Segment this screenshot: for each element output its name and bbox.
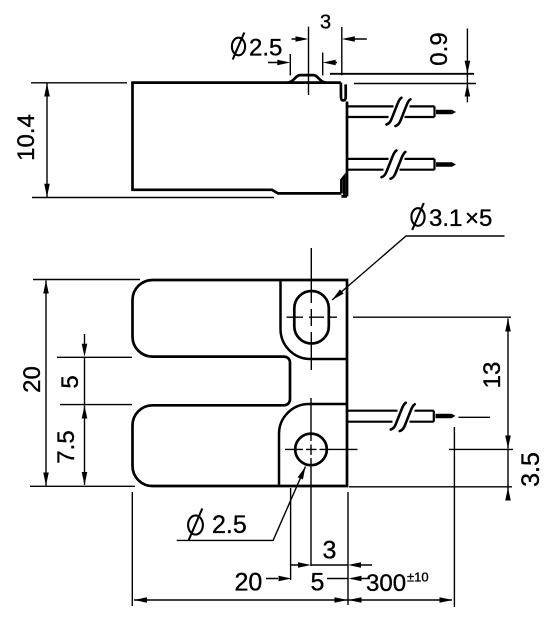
- dim 13 extension (oval centerline ext): [353, 316, 511, 318]
- lead wire 1 outline: [347, 106, 435, 117]
- sensor body side-view outline: [133, 75, 348, 196]
- leader phi3.1x5: [332, 236, 505, 300]
- svg-text:20: 20: [235, 569, 263, 597]
- dim 3 (top) arrows: [292, 38, 367, 40]
- body right edge: [346, 102, 349, 197]
- wire 2 break slashes: [382, 151, 406, 179]
- svg-text:±10: ±10: [407, 570, 429, 585]
- wire (plan) conductor tip: [436, 414, 456, 419]
- dim 13 arrowheads: [505, 319, 511, 332]
- dim 0.9 arrowheads: [465, 61, 471, 74]
- dim 3.5 lower arrowhead: [505, 488, 511, 501]
- bottom-right tab: [341, 176, 347, 196]
- oval hole centerlines: [287, 248, 338, 370]
- dim 20 (left) line: [45, 281, 47, 486]
- lead wire 2 outline: [347, 159, 435, 170]
- circle hole phi2.5: [295, 434, 327, 466]
- label phi3.1x5 : phi symbol: [411, 203, 424, 230]
- wire 1 break slashes: [387, 98, 411, 126]
- dim 5 upper arrow: [84, 334, 86, 344]
- dim phi2.5 ticks: [290, 53, 322, 76]
- svg-text:3: 3: [320, 12, 331, 34]
- top-right tab: [341, 83, 346, 101]
- row3 arrowheads: [134, 597, 147, 603]
- svg-text:2.5: 2.5: [249, 35, 282, 62]
- extension line x=132.3 (row3 left): [131, 492, 133, 606]
- wire (plan) break slashes: [391, 403, 415, 431]
- dim phi2.5 arrows: [268, 62, 337, 64]
- dim 3.5 extension lines: [349, 449, 513, 486]
- dim 7.5 line: [84, 406, 86, 486]
- lens dome: [287, 75, 326, 83]
- extension line x=348 (right face): [347, 492, 349, 605]
- dim 13 line: [507, 319, 509, 449]
- dim 0.9 line: [466, 29, 468, 103]
- extension line x=290.6 (slot end): [290, 488, 292, 580]
- lens centerline: [308, 27, 310, 95]
- leader phi2.5 (bottom): [177, 467, 306, 541]
- svg-text:5: 5: [57, 375, 84, 388]
- dim 0.9 extension lines: [330, 73, 474, 75]
- wire 2 conductor tip: [436, 162, 456, 167]
- top ear inner line: [281, 281, 348, 359]
- dim 10.4 arrowheads: [44, 83, 50, 96]
- fork body outline: [133, 280, 348, 486]
- dim 20 (left) extension lines: [30, 280, 140, 487]
- dim 7.5 arrowheads: [82, 406, 88, 419]
- dim 10.4 extension lines: [31, 83, 274, 198]
- extension line x=454 (wire tip): [453, 427, 455, 607]
- svg-text:3.5: 3.5: [517, 452, 545, 487]
- circle hole centerlines: [285, 398, 358, 566]
- svg-text:3: 3: [323, 537, 337, 565]
- svg-text:10.4: 10.4: [13, 114, 40, 161]
- svg-text:×5: ×5: [465, 205, 492, 232]
- svg-text:0.9: 0.9: [426, 32, 453, 65]
- wire 1 conductor tip: [436, 110, 456, 115]
- dim 10.4 line: [46, 83, 48, 197]
- wire continuation dash: [459, 416, 491, 418]
- label phi2.5 bottom : phi symbol: [188, 509, 203, 541]
- svg-text:7.5: 7.5: [53, 430, 80, 463]
- label phi2.5 top : phi symbol: [232, 33, 245, 60]
- dim 5 through line: [84, 358, 86, 405]
- bottom ear inner line: [279, 404, 347, 485]
- dim 20 (left) arrowheads: [43, 281, 49, 294]
- svg-text:3.1: 3.1: [429, 205, 462, 232]
- svg-text:20: 20: [19, 366, 46, 393]
- dim 3 (top) extension line: [341, 27, 343, 75]
- dim 3.5 line: [507, 449, 509, 500]
- svg-text:2.5: 2.5: [212, 511, 247, 539]
- dim 5 / 7.5 extension lines: [57, 357, 132, 404]
- dim 3 (bottom) row: [291, 564, 372, 566]
- svg-text:5: 5: [311, 569, 325, 597]
- svg-text:300: 300: [366, 570, 406, 597]
- dim 5 (bottom) row arrows: [266, 578, 370, 580]
- dim 20/300 (row3) lines: [134, 599, 452, 601]
- lead wire (plan) outline: [348, 411, 434, 422]
- oval hole phi3.1x5: [294, 291, 329, 344]
- svg-text:13: 13: [479, 362, 506, 389]
